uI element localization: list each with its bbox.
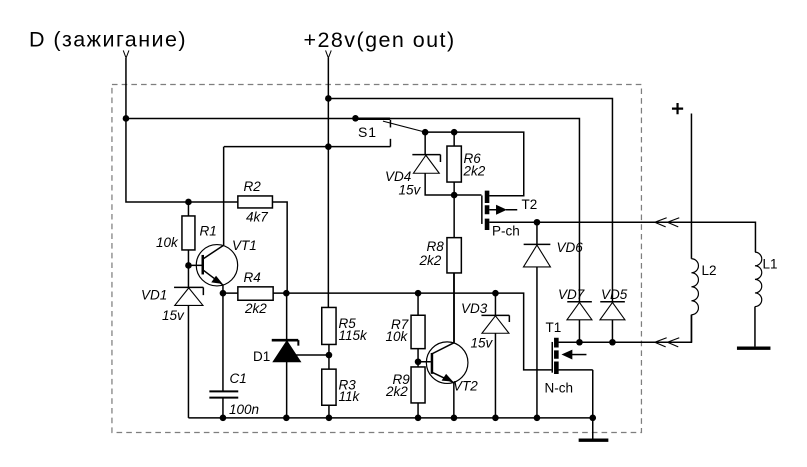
wire y146 rail collector feed — [224, 146, 391, 148]
svg-text:P-ch: P-ch — [492, 223, 520, 238]
transistor VT2 — [426, 342, 468, 384]
svg-text:R1: R1 — [199, 223, 216, 238]
wire base rail y292.7 from R4 to T1 gate — [287, 293, 551, 370]
wire T2 source out to L1 — [537, 222, 756, 252]
resistor R1 — [187, 202, 189, 266]
resistor R7 — [417, 293, 419, 367]
wire D input fork arrow — [123, 50, 129, 58]
svg-text:15v: 15v — [398, 182, 421, 197]
switch S1 — [355, 118, 390, 120]
svg-text:11k: 11k — [338, 389, 360, 404]
arrows on source wire — [655, 218, 680, 227]
wire y98 rail from +28v to right then down to VD5 — [328, 98, 612, 301]
svg-text:4k7: 4k7 — [246, 209, 268, 224]
resistor R5 — [322, 307, 336, 344]
svg-text:2k2: 2k2 — [462, 163, 485, 178]
svg-text:VT2: VT2 — [453, 378, 478, 393]
svg-text:D1: D1 — [253, 349, 270, 364]
wire +28v column down to R5 — [327, 58, 329, 308]
svg-text:R2: R2 — [243, 179, 261, 194]
inductor L1 — [755, 252, 762, 306]
dashed enclosure border — [112, 84, 642, 432]
svg-text:R4: R4 — [243, 270, 260, 285]
diode VD6 — [536, 222, 538, 418]
svg-text:VD3: VD3 — [461, 301, 488, 316]
resistor R8 — [453, 195, 455, 343]
diode VD5 — [600, 301, 625, 303]
ground bus y417.4 — [188, 417, 592, 419]
svg-text:N-ch: N-ch — [544, 380, 573, 395]
svg-text:D (зажигание): D (зажигание) — [29, 28, 187, 52]
terminal + label — [672, 103, 683, 114]
svg-text:10k: 10k — [385, 329, 408, 344]
diode VD7 — [567, 301, 592, 303]
svg-text:R8: R8 — [426, 239, 444, 254]
mosfet T1 N-ch — [551, 342, 553, 373]
svg-text:VD5: VD5 — [601, 287, 628, 302]
wire D column down and to R2 row — [126, 58, 238, 202]
wire S1 output to T2 drain loop — [425, 132, 524, 196]
ground under T1 source — [579, 438, 609, 441]
svg-text:T2: T2 — [521, 197, 537, 212]
svg-text:VD6: VD6 — [556, 240, 583, 255]
resistor R9 — [411, 367, 425, 403]
svg-text:L1: L1 — [762, 256, 777, 271]
svg-text:L2: L2 — [701, 263, 716, 278]
svg-text:15v: 15v — [470, 335, 493, 350]
wire y118 rail from D column to right then down to VD7 — [126, 118, 580, 301]
wire + down to L2 — [690, 113, 692, 258]
zener VD3 — [494, 293, 496, 418]
svg-text:S1: S1 — [358, 124, 377, 140]
svg-text:115k: 115k — [338, 328, 368, 343]
svg-text:VT1: VT1 — [232, 238, 257, 253]
svg-text:2k2: 2k2 — [418, 253, 441, 268]
resistor R4 — [223, 292, 287, 294]
resistor R2 — [238, 196, 273, 208]
capacitor C1 — [222, 293, 224, 418]
mosfet T2 P-ch — [454, 194, 481, 196]
svg-text:T1: T1 — [545, 320, 561, 335]
wire T1 drain to L2 — [559, 315, 692, 343]
zener VD4 — [412, 155, 440, 162]
arrows on drain wire — [655, 338, 680, 347]
wire VD4 branch down from S1 node — [424, 132, 426, 155]
svg-text:10k: 10k — [156, 235, 179, 250]
svg-text:2k2: 2k2 — [244, 301, 267, 316]
ground under L1 — [737, 346, 771, 349]
thyristor D1 — [286, 293, 288, 418]
svg-text:2k2: 2k2 — [385, 384, 408, 399]
transistor VT1 — [196, 245, 237, 286]
svg-text:100n: 100n — [229, 402, 259, 417]
resistor R3 — [328, 355, 330, 418]
wire +28v fork arrow — [326, 50, 332, 58]
svg-text:15v: 15v — [162, 308, 185, 323]
inductor L2 — [691, 259, 698, 315]
svg-text:VD7: VD7 — [558, 287, 585, 302]
svg-text:+28v(gen out): +28v(gen out) — [303, 28, 455, 52]
svg-text:C1: C1 — [229, 371, 246, 386]
svg-text:VD1: VD1 — [141, 287, 167, 302]
zener VD1 — [187, 265, 189, 417]
resistor R6 — [453, 132, 455, 195]
